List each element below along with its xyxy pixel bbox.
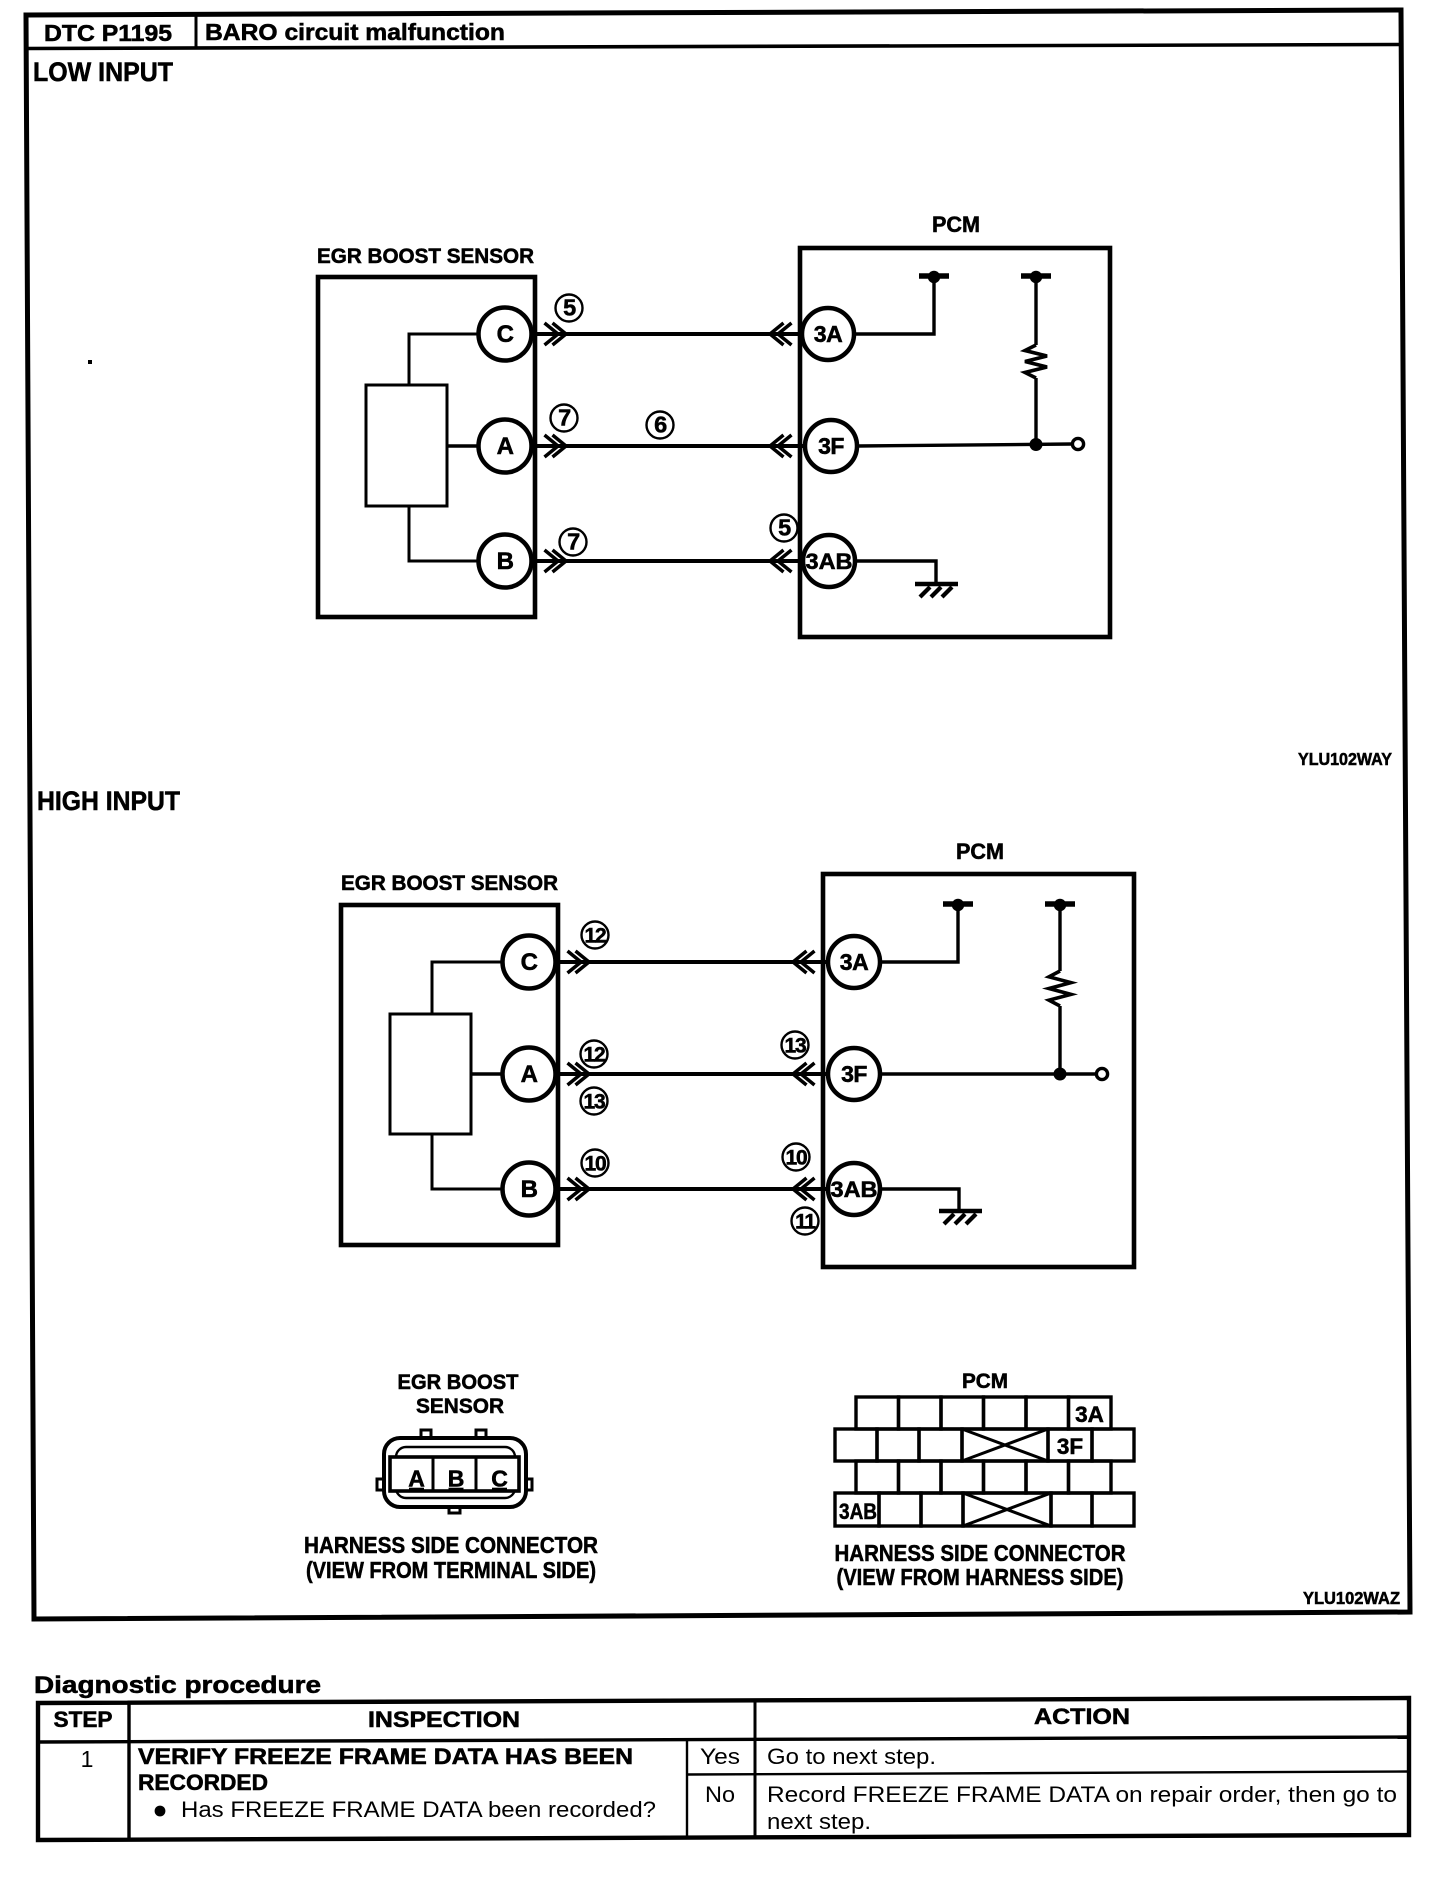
wire power to resistor (low): [1034, 280, 1037, 345]
svg-text:ACTION: ACTION: [1034, 1704, 1130, 1729]
sensor connector terminal strip: [390, 1457, 519, 1491]
chevrons wire C PCM side (high): [793, 951, 815, 973]
circled 5 wire C (low): [556, 295, 583, 322]
chevrons wire B sensor side (low): [545, 550, 567, 572]
action text No line 2: [767, 1809, 871, 1834]
wire B to sensor element (low): [409, 506, 480, 561]
svg-text:3AB: 3AB: [831, 1177, 878, 1202]
svg-text:3AB: 3AB: [839, 1499, 877, 1524]
PCM label (high): [956, 839, 1004, 864]
wire B to sensor element (high): [432, 1134, 504, 1189]
svg-text:(VIEW FROM TERMINAL SIDE): (VIEW FROM TERMINAL SIDE): [306, 1557, 596, 1583]
sensor element box (high): [390, 1014, 471, 1134]
svg-text:B: B: [521, 1176, 538, 1203]
svg-text:EGR BOOST SENSOR: EGR BOOST SENSOR: [341, 872, 558, 895]
circled 7 wire A (low): [551, 405, 578, 432]
caption VIEW FROM HARNESS SIDE: [837, 1564, 1124, 1590]
circled 5 wire B PCM side (low): [771, 515, 798, 542]
answer No: [705, 1782, 735, 1807]
PCM label (connector): [962, 1370, 1008, 1393]
section label HIGH INPUT: [37, 786, 180, 816]
sensor connector bottom tab: [449, 1505, 460, 1513]
caption VIEW FROM TERMINAL SIDE: [306, 1557, 596, 1583]
svg-text:7: 7: [567, 529, 580, 555]
svg-text:PCM: PCM: [962, 1370, 1008, 1393]
terminal 3AB (low): [803, 535, 855, 587]
ground symbol (high): [939, 1211, 982, 1224]
ground symbol (low): [915, 584, 958, 597]
crossed-out cell row 4: [963, 1493, 1051, 1526]
chevrons wire B PCM side (high): [793, 1178, 815, 1200]
PCM box (low): [800, 248, 1110, 637]
output terminal open circle (low): [1072, 438, 1083, 449]
svg-text:No: No: [705, 1782, 735, 1807]
action text Yes: [767, 1744, 936, 1769]
chevrons wire A sensor side (high): [568, 1063, 590, 1085]
circled 7 wire B (low): [560, 529, 587, 556]
svg-text:EGR BOOST SENSOR: EGR BOOST SENSOR: [317, 245, 534, 268]
crossed-out cell row 2: [962, 1429, 1048, 1461]
terminal 3AB (high): [828, 1163, 880, 1215]
power supply symbol right (low): [1021, 271, 1051, 283]
svg-text:Diagnostic procedure: Diagnostic procedure: [34, 1672, 321, 1699]
chevrons wire B PCM side (low): [770, 550, 792, 572]
svg-text:Yes: Yes: [700, 1744, 740, 1769]
title BARO circuit malfunction: [205, 19, 505, 45]
EGR boost sensor box (high): [341, 905, 558, 1245]
wire 3A to power (high): [878, 908, 958, 962]
terminal A (high): [503, 1048, 556, 1101]
PCM connector row 4 cells: [835, 1493, 1134, 1526]
scan speckle dot: [88, 360, 92, 364]
chevrons wire C sensor side (low): [545, 323, 567, 345]
SENSOR label (connector): [416, 1395, 504, 1418]
sensor connector top tab right: [476, 1430, 486, 1438]
wire 3AB to ground (high): [878, 1189, 959, 1209]
svg-text:11: 11: [795, 1211, 816, 1234]
PCM label (low): [932, 212, 980, 237]
svg-text:3F: 3F: [1057, 1434, 1083, 1459]
wire 3F to output (low): [858, 444, 1072, 446]
terminal 3A (low): [802, 308, 854, 360]
EGR BOOST label (connector): [398, 1371, 519, 1394]
svg-text:PCM: PCM: [932, 212, 980, 237]
PCM box (high): [823, 874, 1134, 1267]
svg-text:5: 5: [563, 295, 576, 321]
resistor (low): [1025, 345, 1047, 378]
EGR BOOST SENSOR label (low): [317, 245, 534, 268]
terminal B (high): [503, 1163, 556, 1216]
PCM connector row 1 cells: [856, 1397, 1111, 1429]
sensor element box (low): [366, 385, 447, 506]
svg-text:A: A: [408, 1466, 425, 1492]
caption HARNESS SIDE CONNECTOR (left): [304, 1532, 598, 1558]
sensor connector top tab left: [421, 1430, 431, 1438]
section label LOW INPUT: [33, 57, 173, 87]
inspection bullet text: [181, 1797, 656, 1822]
figure code YLU102WAY: [1298, 749, 1392, 769]
column header ACTION: [1034, 1704, 1130, 1729]
circled 13 below wire A (high): [581, 1088, 608, 1115]
svg-text:3A: 3A: [840, 949, 868, 975]
svg-text:C: C: [521, 949, 538, 976]
wire A to sensor element (low): [447, 444, 480, 447]
sensor connector outer body: [384, 1438, 526, 1507]
sensor connector inner outline: [396, 1447, 515, 1498]
svg-text:3F: 3F: [818, 433, 844, 459]
svg-text:3AB: 3AB: [806, 549, 853, 574]
circled 13 wire A PCM side (high): [782, 1032, 809, 1059]
circled 10 wire B PCM side (high): [783, 1144, 810, 1171]
svg-text:PCM: PCM: [956, 839, 1004, 864]
wire resistor to junction (high): [1058, 1006, 1061, 1074]
terminal label A: [408, 1466, 425, 1492]
svg-text:(VIEW FROM HARNESS SIDE): (VIEW FROM HARNESS SIDE): [837, 1564, 1124, 1590]
column header STEP: [54, 1707, 113, 1732]
svg-text:next step.: next step.: [767, 1809, 871, 1834]
svg-text:3A: 3A: [814, 321, 842, 347]
circled 10 wire B (high): [582, 1150, 609, 1177]
wire resistor to junction (low): [1034, 378, 1037, 444]
svg-text:7: 7: [558, 405, 571, 431]
circled 12 wire C (high): [582, 922, 609, 949]
output terminal open circle (high): [1096, 1068, 1107, 1079]
svg-text:6: 6: [654, 412, 667, 438]
wire 3F to output (high): [881, 1072, 1096, 1075]
junction dot on 3F line (high): [1054, 1068, 1067, 1081]
svg-text:STEP: STEP: [54, 1707, 113, 1732]
svg-text:B: B: [448, 1466, 465, 1492]
EGR BOOST SENSOR label (high): [341, 872, 558, 895]
svg-text:Go to next step.: Go to next step.: [767, 1744, 936, 1769]
chevrons wire A PCM side (high): [793, 1063, 815, 1085]
svg-text:EGR BOOST: EGR BOOST: [398, 1371, 519, 1394]
column header INSPECTION: [368, 1707, 520, 1732]
terminal label C: [491, 1466, 508, 1492]
svg-text:B: B: [497, 548, 514, 575]
terminal strip divider A-B: [432, 1457, 435, 1491]
svg-text:HARNESS SIDE CONNECTOR: HARNESS SIDE CONNECTOR: [304, 1532, 598, 1558]
EGR boost sensor box (low): [318, 277, 535, 617]
svg-text:5: 5: [778, 515, 791, 541]
inspection text line 2: [138, 1770, 268, 1795]
svg-text:SENSOR: SENSOR: [416, 1395, 504, 1418]
wire 3A to power (low): [854, 280, 934, 334]
pin label 3AB: [839, 1499, 877, 1524]
wire C to sensor element (high): [432, 962, 504, 1014]
wire sensor B to PCM 3AB (low): [505, 559, 831, 563]
svg-text:Has FREEZE FRAME DATA been rec: Has FREEZE FRAME DATA been recorded?: [181, 1797, 656, 1822]
svg-text:10: 10: [786, 1147, 807, 1170]
caption HARNESS SIDE CONNECTOR (right): [835, 1540, 1126, 1566]
PCM connector row 2 cells: [835, 1429, 1134, 1461]
svg-text:13: 13: [584, 1091, 605, 1114]
figure code YLU102WAZ: [1303, 1588, 1400, 1608]
circled 12 wire A (high): [581, 1041, 608, 1068]
terminal B (low): [479, 535, 532, 588]
wire sensor C to PCM 3A (low): [505, 332, 830, 336]
svg-text:A: A: [521, 1061, 538, 1088]
svg-text:HIGH INPUT: HIGH INPUT: [37, 786, 180, 816]
wire sensor A to PCM 3F (high): [529, 1072, 856, 1076]
svg-text:12: 12: [584, 1044, 605, 1067]
svg-text:Record FREEZE FRAME DATA on re: Record FREEZE FRAME DATA on repair order…: [767, 1782, 1397, 1807]
svg-text:HARNESS SIDE CONNECTOR: HARNESS SIDE CONNECTOR: [835, 1540, 1126, 1566]
svg-text:13: 13: [785, 1035, 806, 1058]
chevrons wire C sensor side (high): [568, 951, 590, 973]
power supply symbol left (high): [943, 899, 973, 911]
sensor connector side tab right: [524, 1479, 532, 1490]
wire sensor B to PCM 3AB (high): [529, 1187, 856, 1191]
svg-text:RECORDED: RECORDED: [138, 1770, 268, 1795]
header cell divider: [195, 13, 198, 47]
action text No line 1: [767, 1782, 1397, 1807]
pin label 3A: [1075, 1402, 1104, 1427]
svg-text:3F: 3F: [841, 1061, 867, 1087]
terminal 3F (high): [828, 1048, 880, 1100]
wire A to sensor element (high): [471, 1072, 504, 1075]
inspection text line 1: [138, 1744, 633, 1769]
wire power to resistor (high): [1058, 908, 1061, 971]
resistor (high): [1049, 971, 1071, 1006]
terminal 3A (high): [828, 936, 880, 988]
chevrons wire A PCM side (low): [770, 435, 792, 457]
table divider YesNo-ACTION: [754, 1701, 757, 1837]
svg-text:12: 12: [585, 925, 606, 948]
svg-text:1: 1: [81, 1746, 94, 1772]
svg-text:BARO circuit malfunction: BARO circuit malfunction: [205, 19, 505, 45]
step number 1: [81, 1746, 94, 1772]
svg-text:A: A: [497, 433, 514, 460]
table header bottom line: [38, 1737, 1409, 1742]
svg-text:YLU102WAY: YLU102WAY: [1298, 749, 1392, 769]
power supply symbol left (low): [919, 271, 949, 283]
title DTC P1195: [44, 20, 172, 46]
wire sensor A to PCM 3F (low): [505, 444, 833, 448]
svg-text:VERIFY FREEZE FRAME DATA HAS B: VERIFY FREEZE FRAME DATA HAS BEEN: [138, 1744, 633, 1769]
svg-text:YLU102WAZ: YLU102WAZ: [1303, 1588, 1400, 1608]
wire 3AB to ground (low): [854, 561, 936, 582]
chevrons wire A sensor side (low): [545, 435, 567, 457]
wire C to sensor element (low): [409, 334, 480, 385]
terminal C (high): [503, 936, 556, 989]
heading Diagnostic procedure: [34, 1672, 321, 1699]
table outer border: [38, 1698, 1409, 1840]
inspection bullet: [155, 1806, 166, 1817]
circled 6 wire A middle (low): [647, 412, 674, 439]
wire sensor C to PCM 3A (high): [529, 960, 856, 964]
chevrons wire C PCM side (low): [770, 323, 792, 345]
pin label 3F: [1057, 1434, 1083, 1459]
junction dot on 3F line (low): [1030, 438, 1043, 451]
svg-text:C: C: [497, 321, 514, 348]
sensor connector side tab left: [377, 1479, 385, 1490]
terminal 3F (low): [805, 420, 857, 472]
chevrons wire B sensor side (high): [568, 1178, 590, 1200]
terminal label B: [448, 1466, 465, 1492]
PCM connector row 3 cells: [856, 1461, 1111, 1493]
power supply symbol right (high): [1045, 899, 1075, 911]
circled 11 below wire B PCM side (high): [792, 1208, 819, 1235]
svg-text:DTC P1195: DTC P1195: [44, 20, 172, 46]
svg-text:10: 10: [585, 1153, 606, 1176]
terminal A (low): [479, 420, 532, 473]
table divider STEP-INSPECTION: [127, 1703, 130, 1840]
header row divider line: [26, 45, 1401, 49]
svg-text:3A: 3A: [1075, 1402, 1104, 1427]
svg-text:C: C: [491, 1466, 508, 1492]
table divider Yes-No row: [687, 1772, 1409, 1775]
svg-text:INSPECTION: INSPECTION: [368, 1707, 520, 1732]
table divider INSPECTION-YesNo: [686, 1741, 688, 1838]
terminal strip divider B-C: [475, 1457, 478, 1491]
terminal C (low): [479, 308, 532, 361]
answer Yes: [700, 1744, 740, 1769]
svg-text:LOW INPUT: LOW INPUT: [33, 57, 173, 87]
